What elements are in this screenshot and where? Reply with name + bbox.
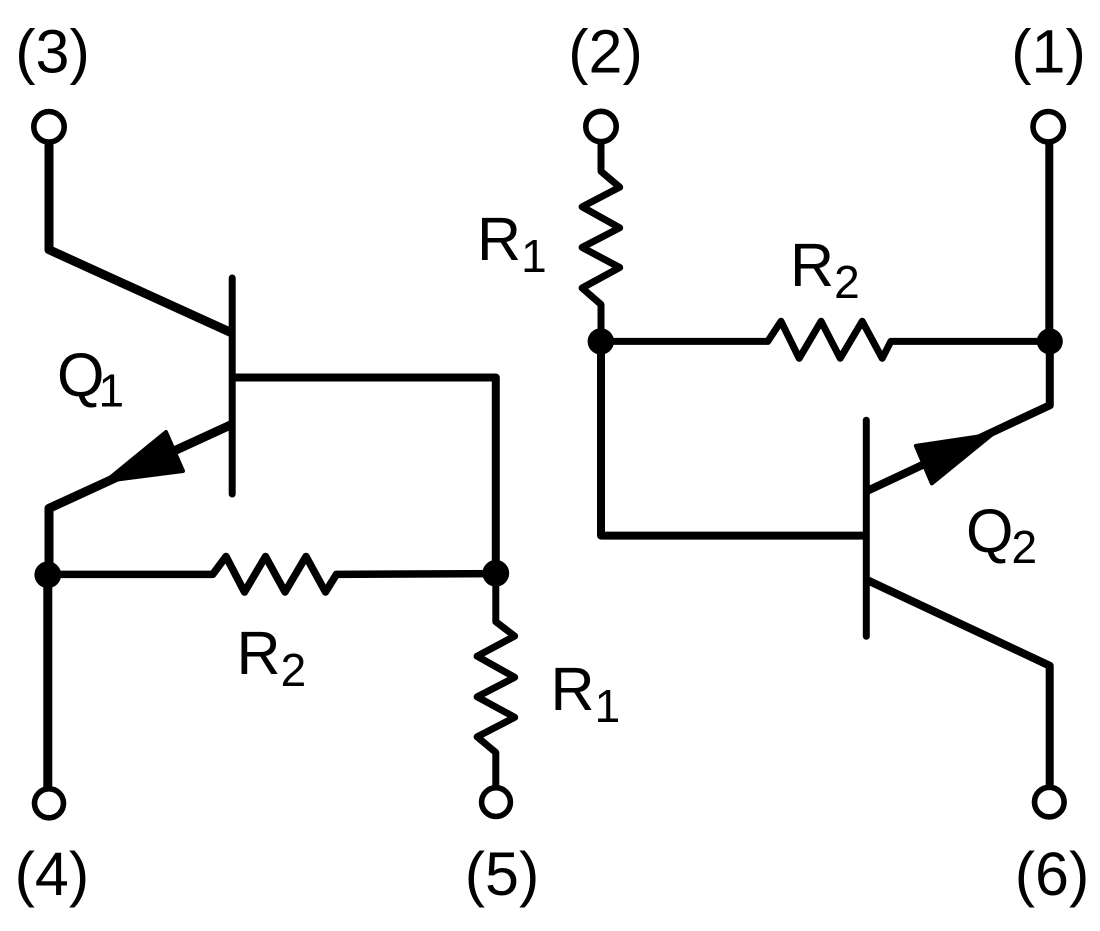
terminal pin 2 [586, 111, 616, 141]
node A junction [588, 328, 614, 354]
transistor Q2 base bar [863, 420, 870, 636]
resistor R2 (right) [601, 321, 1050, 358]
wire node left-A to pin 4 [43, 575, 52, 789]
node left-B junction [482, 560, 509, 587]
terminal pin 4 [35, 789, 64, 818]
svg-text:(3): (3) [15, 18, 90, 86]
resistor R1 (left) [477, 573, 515, 787]
wire node B to Q2 emitter [867, 341, 1050, 491]
wire pin3 to Q1 collector [49, 142, 232, 333]
svg-text:(6): (6) [1015, 840, 1090, 908]
transistor Q1 base bar [229, 278, 236, 494]
terminal pin 1 [1033, 112, 1063, 142]
wire node A to Q2 base [601, 341, 866, 535]
terminal pin 6 [1035, 787, 1065, 817]
svg-text:(4): (4) [15, 840, 90, 908]
terminal pin 3 [34, 112, 64, 142]
node B junction [1037, 328, 1063, 354]
transistor Q2 collector wire [867, 580, 1050, 787]
resistor R1 (right) [582, 142, 620, 341]
svg-text:(5): (5) [465, 840, 540, 908]
wire pin1 to node B [1045, 142, 1053, 341]
transistor Q1 emitter arrow [106, 432, 183, 481]
svg-text:(1): (1) [1011, 18, 1086, 86]
resistor R2 (left) [49, 557, 496, 593]
node left-A junction [34, 561, 61, 588]
transistor Q2 emitter arrow [916, 435, 992, 484]
wire Q1 base to node [232, 378, 496, 574]
transistor Q1 emitter wire [49, 424, 232, 575]
svg-text:(2): (2) [568, 18, 643, 86]
terminal pin 5 [482, 788, 511, 817]
